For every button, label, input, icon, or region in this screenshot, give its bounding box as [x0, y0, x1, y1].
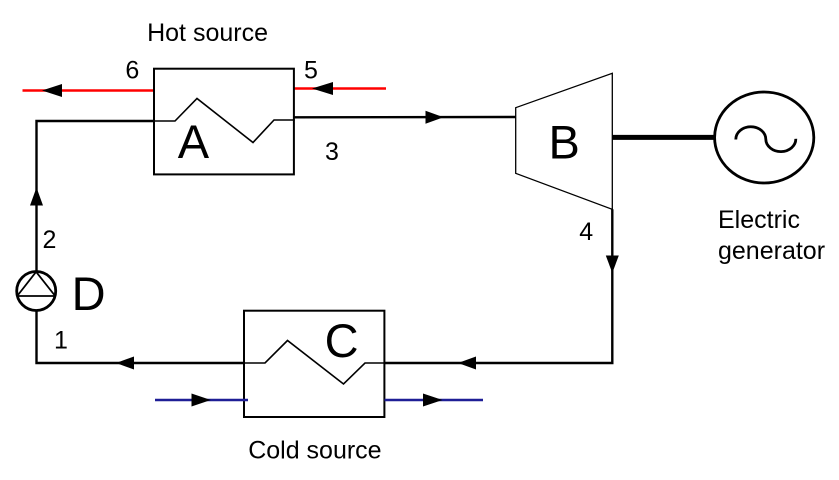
svg-text:Electric: Electric: [718, 206, 800, 234]
label Electric generator: [718, 206, 825, 265]
generator sine symbol: [736, 127, 796, 152]
wire hot red out (node 6 line): [23, 84, 154, 97]
wire A to turbine (node 3 line): [294, 111, 516, 124]
cold blue in line: [155, 394, 248, 407]
svg-text:Hot source: Hot source: [147, 19, 268, 47]
pump D impeller triangle: [17, 272, 56, 296]
condenser C box: [244, 311, 384, 417]
svg-text:3: 3: [325, 138, 339, 166]
cold blue out line: [385, 394, 484, 407]
svg-text:Cold source: Cold source: [248, 436, 381, 464]
svg-text:generator: generator: [718, 237, 825, 265]
svg-text:B: B: [549, 115, 580, 168]
svg-text:A: A: [178, 115, 210, 168]
svg-text:5: 5: [304, 56, 318, 84]
turbine B trapezoid: [516, 73, 613, 209]
wire pump down to condenser (node 1 line): [37, 311, 245, 370]
svg-text:C: C: [325, 314, 359, 367]
generator circle: [715, 92, 814, 183]
svg-text:1: 1: [54, 327, 68, 355]
wire A left down to pump (node 2 line): [30, 121, 154, 272]
svg-text:4: 4: [579, 218, 593, 246]
svg-text:D: D: [72, 267, 106, 320]
pump D circle: [17, 272, 56, 311]
svg-text:6: 6: [125, 56, 139, 84]
condenser C coil: [244, 341, 385, 385]
wire hot red in (node 5 line): [295, 82, 387, 95]
svg-text:2: 2: [43, 226, 57, 254]
heat exchanger A coil: [154, 99, 295, 143]
heat exchanger A box: [154, 69, 294, 175]
generator shaft: [612, 135, 716, 140]
wire turbine to condenser (node 4 line): [385, 209, 619, 369]
